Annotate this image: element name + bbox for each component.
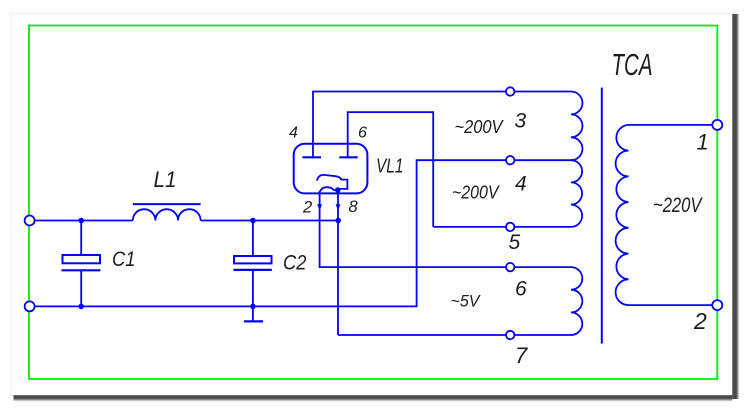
- capacitor C2 bottom lead: [252, 270, 254, 307]
- svg-text:L1: L1: [154, 167, 177, 192]
- junction dot C2 top: [250, 218, 256, 224]
- capacitor C1 bottom lead: [80, 270, 82, 306]
- terminal 7: [506, 331, 514, 339]
- capacitor C1 plate (line): [62, 269, 101, 271]
- svg-text:TCA: TCA: [612, 47, 653, 82]
- svg-text:7: 7: [515, 343, 528, 368]
- arrow on pin 2: [317, 204, 322, 211]
- tube pin 6 lead wire to terminal 5: [348, 112, 434, 227]
- ground bar: [244, 320, 263, 322]
- terminal 3: [506, 87, 514, 95]
- capacitor C2 plate (rect): [234, 256, 272, 263]
- svg-text:VL1: VL1: [376, 156, 404, 178]
- tube pin 8 lead down to terminal 7 wire: [337, 190, 339, 335]
- svg-text:C2: C2: [283, 252, 307, 275]
- tube VL1 envelope: [294, 144, 368, 194]
- capacitor C1 plate (rect): [63, 255, 101, 263]
- primary winding with wires to terminals 1 and 2: [616, 125, 713, 305]
- svg-text:8: 8: [349, 198, 359, 216]
- page drop shadow bottom: [14, 395, 733, 401]
- inductor L1 winding: [133, 209, 201, 220]
- terminal 1: [712, 120, 722, 130]
- svg-text:6: 6: [358, 125, 367, 142]
- svg-text:~200V: ~200V: [455, 117, 505, 137]
- junction dot cathode-filament-pin8: [335, 187, 341, 193]
- svg-text:4: 4: [515, 172, 527, 195]
- drawing frame (green border): [29, 26, 717, 380]
- terminal 2: [712, 300, 722, 310]
- svg-text:2: 2: [302, 199, 312, 217]
- junction dot C2 bottom: [250, 304, 256, 310]
- wire: top rail left segment (input 1 to L1): [35, 220, 133, 222]
- tube anode plate pin6: [339, 156, 357, 158]
- page drop shadow right: [732, 14, 739, 399]
- svg-text:2: 2: [693, 308, 707, 334]
- terminal 5: [506, 223, 514, 231]
- svg-text:5: 5: [509, 231, 521, 254]
- wire: bottom rail + riser + wire to terminal 4 (center tap): [35, 160, 575, 306]
- capacitor C1 top lead: [80, 221, 82, 256]
- svg-text:4: 4: [289, 125, 298, 142]
- svg-text:C1: C1: [112, 248, 136, 271]
- input terminal bottom: [25, 301, 35, 311]
- wire: top rail right segment (L1 to pin8 junction): [201, 220, 339, 222]
- svg-text:6: 6: [515, 277, 527, 300]
- terminal 4: [506, 156, 514, 164]
- svg-text:~220V: ~220V: [653, 193, 704, 217]
- svg-text:1: 1: [697, 130, 709, 155]
- tube anode plate pin4: [302, 156, 321, 158]
- input terminal top: [25, 216, 35, 226]
- svg-text:~5V: ~5V: [451, 292, 482, 311]
- tube filament heater: [320, 187, 338, 192]
- transformer core: [601, 88, 603, 344]
- junction dot C1 top: [78, 218, 84, 224]
- ground stub at C2: [252, 306, 254, 321]
- svg-text:3: 3: [515, 110, 527, 133]
- capacitor C2 top lead: [252, 221, 254, 257]
- tube pin 2 lead down to 5V winding wire (terminal 6): [320, 191, 506, 267]
- inductor L1 core bar: [133, 203, 201, 205]
- svg-text:~200V: ~200V: [452, 183, 500, 203]
- tube pin 4 lead + wire to terminal 3 + upper secondary winding (3-4-5): [313, 92, 582, 227]
- capacitor C2 plate (line): [234, 269, 272, 271]
- junction dot C1 bottom: [78, 304, 84, 310]
- terminal 6: [506, 263, 514, 271]
- arrow on pin 8: [336, 204, 341, 211]
- tube cathode: [317, 175, 348, 189]
- junction dot pin8 on top rail: [335, 218, 341, 224]
- wire: terminal 6 to lower winding + winding 6-7 + wire back to pin 8: [338, 267, 582, 335]
